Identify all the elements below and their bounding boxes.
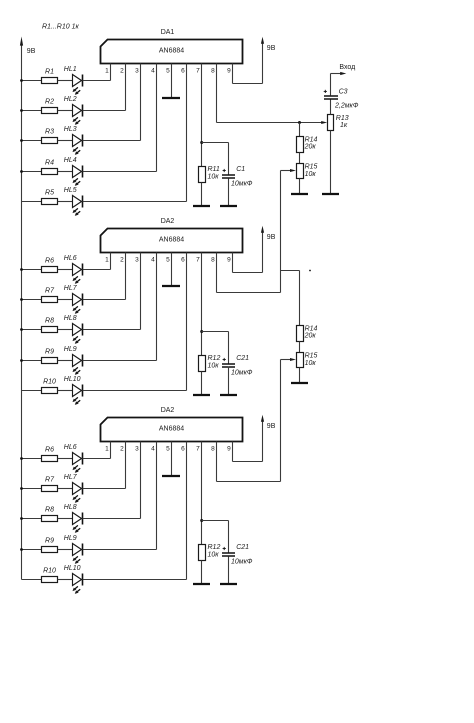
svg-text:HL7: HL7 xyxy=(64,285,78,292)
svg-text:R1...R10 1к: R1...R10 1к xyxy=(42,24,79,31)
svg-text:9В: 9В xyxy=(267,423,276,430)
svg-text:5: 5 xyxy=(166,67,170,74)
svg-text:HL1: HL1 xyxy=(64,66,77,73)
svg-text:R15: R15 xyxy=(305,353,318,360)
svg-text:7: 7 xyxy=(196,67,200,74)
svg-text:HL6: HL6 xyxy=(64,255,77,262)
svg-text:4: 4 xyxy=(151,256,155,263)
svg-text:HL9: HL9 xyxy=(64,346,77,353)
svg-text:6: 6 xyxy=(181,67,185,74)
svg-text:R2: R2 xyxy=(45,99,54,106)
svg-text:C21: C21 xyxy=(236,544,249,551)
svg-text:10к: 10к xyxy=(208,363,220,370)
svg-text:1: 1 xyxy=(105,256,109,263)
svg-text:DA2: DA2 xyxy=(161,407,175,414)
svg-text:R4: R4 xyxy=(45,160,54,167)
svg-text:1: 1 xyxy=(105,445,109,452)
svg-text:R15: R15 xyxy=(305,164,318,171)
svg-text:HL4: HL4 xyxy=(64,157,77,164)
svg-text:R3: R3 xyxy=(45,129,54,136)
svg-text:HL10: HL10 xyxy=(64,565,81,572)
svg-text:6: 6 xyxy=(181,445,185,452)
svg-text:9В: 9В xyxy=(267,45,276,52)
svg-text:R12: R12 xyxy=(208,544,221,551)
svg-text:8: 8 xyxy=(211,256,215,263)
svg-text:R12: R12 xyxy=(208,355,221,362)
svg-text:R7: R7 xyxy=(45,477,55,484)
svg-text:R6: R6 xyxy=(45,447,54,454)
svg-text:8: 8 xyxy=(211,445,215,452)
svg-text:R9: R9 xyxy=(45,538,54,545)
svg-text:10мкФ: 10мкФ xyxy=(231,180,253,187)
svg-text:1к: 1к xyxy=(340,122,348,129)
svg-text:R11: R11 xyxy=(208,166,220,173)
svg-text:5: 5 xyxy=(166,256,170,263)
svg-text:R10: R10 xyxy=(43,568,56,575)
svg-text:R14: R14 xyxy=(305,136,318,143)
svg-text:Вход: Вход xyxy=(339,64,355,71)
svg-text:AN6884: AN6884 xyxy=(159,425,184,432)
svg-text:10к: 10к xyxy=(305,171,317,178)
svg-text:3: 3 xyxy=(135,445,139,452)
svg-text:2: 2 xyxy=(120,256,124,263)
svg-text:10к: 10к xyxy=(305,360,317,367)
svg-text:6: 6 xyxy=(181,256,185,263)
svg-text:10мкФ: 10мкФ xyxy=(231,558,253,565)
svg-text:5: 5 xyxy=(166,445,170,452)
svg-text:C21: C21 xyxy=(236,355,249,362)
svg-text:HL7: HL7 xyxy=(64,474,78,481)
svg-text:9: 9 xyxy=(227,445,231,452)
svg-text:HL9: HL9 xyxy=(64,535,77,542)
svg-text:7: 7 xyxy=(196,256,200,263)
svg-text:HL6: HL6 xyxy=(64,444,77,451)
svg-text:9: 9 xyxy=(227,67,231,74)
svg-text:2,2мкФ: 2,2мкФ xyxy=(334,102,359,109)
svg-text:20к: 20к xyxy=(304,144,317,151)
svg-text:9: 9 xyxy=(227,256,231,263)
svg-text:7: 7 xyxy=(196,445,200,452)
svg-text:R8: R8 xyxy=(45,507,54,514)
svg-text:C1: C1 xyxy=(236,166,245,173)
svg-text:DA2: DA2 xyxy=(161,218,175,225)
svg-text:10к: 10к xyxy=(208,174,220,181)
svg-text:R5: R5 xyxy=(45,190,54,197)
svg-text:2: 2 xyxy=(120,67,124,74)
svg-text:4: 4 xyxy=(151,67,155,74)
svg-text:10к: 10к xyxy=(208,552,220,559)
svg-text:1: 1 xyxy=(105,67,109,74)
svg-text:R7: R7 xyxy=(45,288,55,295)
svg-text:3: 3 xyxy=(135,67,139,74)
svg-text:AN6884: AN6884 xyxy=(159,47,184,54)
svg-text:C3: C3 xyxy=(339,88,348,95)
svg-text:R1: R1 xyxy=(45,69,54,76)
svg-text:8: 8 xyxy=(211,67,215,74)
svg-text:R8: R8 xyxy=(45,318,54,325)
svg-text:10мкФ: 10мкФ xyxy=(231,369,253,376)
svg-text:R9: R9 xyxy=(45,349,54,356)
svg-text:HL10: HL10 xyxy=(64,376,81,383)
svg-text:9В: 9В xyxy=(27,48,36,55)
svg-text:R14: R14 xyxy=(305,325,318,332)
svg-text:HL2: HL2 xyxy=(64,96,77,103)
svg-text:HL5: HL5 xyxy=(64,187,77,194)
svg-text:3: 3 xyxy=(135,256,139,263)
svg-text:2: 2 xyxy=(120,445,124,452)
svg-text:HL8: HL8 xyxy=(64,504,77,511)
svg-text:R10: R10 xyxy=(43,379,56,386)
svg-text:R6: R6 xyxy=(45,258,54,265)
svg-text:AN6884: AN6884 xyxy=(159,236,184,243)
svg-text:20к: 20к xyxy=(304,333,317,340)
svg-text:HL8: HL8 xyxy=(64,315,77,322)
svg-text:HL3: HL3 xyxy=(64,126,77,133)
svg-text:9В: 9В xyxy=(267,234,276,241)
svg-text:4: 4 xyxy=(151,445,155,452)
svg-text:DA1: DA1 xyxy=(161,29,175,36)
